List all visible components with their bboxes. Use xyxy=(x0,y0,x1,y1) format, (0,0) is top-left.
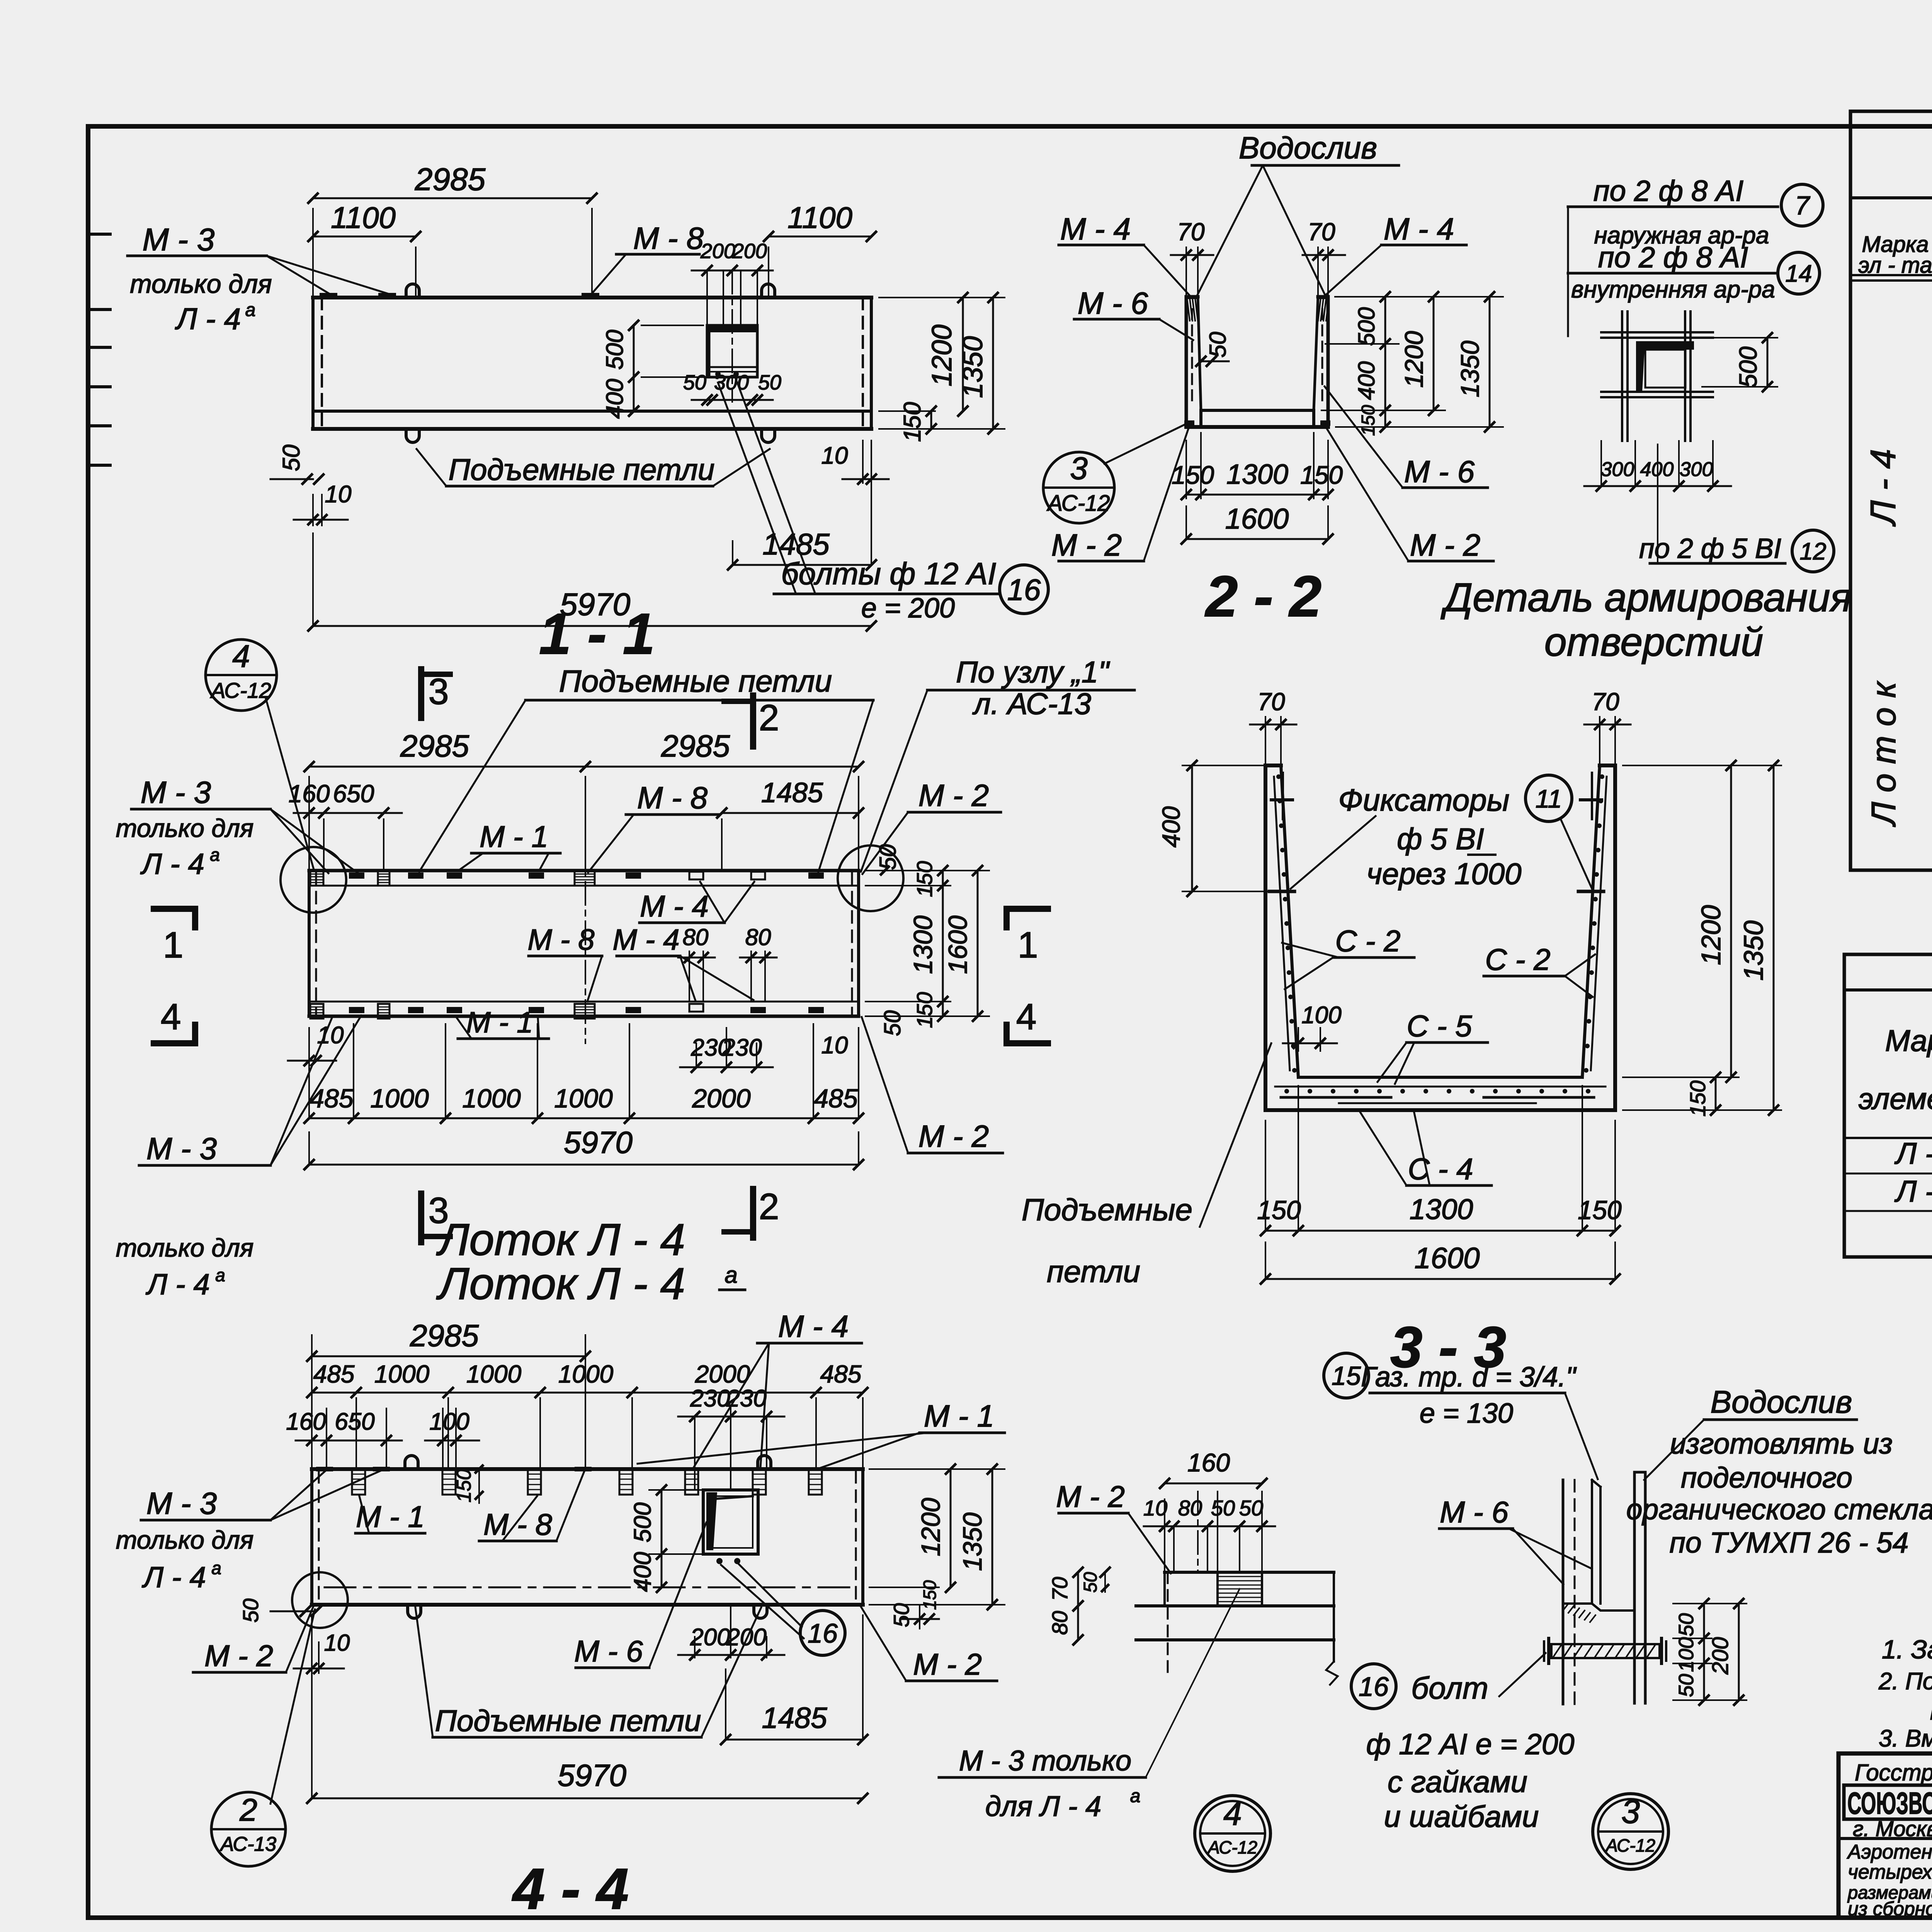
svg-text:1200: 1200 xyxy=(927,325,957,386)
svg-text:1 - 1: 1 - 1 xyxy=(539,601,655,666)
svg-text:16: 16 xyxy=(1359,1672,1389,1702)
svg-text:По узлу „1": По узлу „1" xyxy=(956,655,1110,689)
svg-text:С - 5: С - 5 xyxy=(1406,1009,1472,1043)
plan view: section marks 3 and 2 bottom xyxy=(418,1194,424,1242)
svg-text:М - 6: М - 6 xyxy=(1404,454,1475,489)
section 4-4: right dims 1200 1350 xyxy=(869,1468,1005,1470)
svg-text:для Л - 4: для Л - 4 xyxy=(985,1790,1101,1822)
svg-text:С - 2: С - 2 xyxy=(1485,942,1550,976)
svg-text:2 - 2: 2 - 2 xyxy=(1204,564,1321,629)
svg-text:1000: 1000 xyxy=(370,1084,429,1113)
svg-text:М - 3: М - 3 xyxy=(143,222,215,257)
svg-text:50: 50 xyxy=(1080,1572,1101,1593)
svg-text:С - 4: С - 4 xyxy=(1408,1152,1473,1186)
svg-text:485: 485 xyxy=(814,1084,858,1113)
svg-text:по 2 ф 5 ВІ: по 2 ф 5 ВІ xyxy=(1639,533,1781,564)
svg-text:четырехкоридорные с: четырехкоридорные с xyxy=(1848,1861,1932,1883)
svg-text:а: а xyxy=(215,1265,225,1285)
svg-text:М - 3: М - 3 xyxy=(146,1131,217,1166)
svg-text:Подъемные: Подъемные xyxy=(1022,1192,1192,1227)
svg-text:органического стекла: органического стекла xyxy=(1626,1493,1932,1526)
svg-text:2. Подъем лотка за верхние пе: 2. Подъем лотка за верхние петли осущест… xyxy=(1878,1668,1932,1695)
table: Выборка стали на 1 элемент - outer box xyxy=(1844,954,1932,1257)
svg-text:М - 1: М - 1 xyxy=(356,1500,425,1534)
svg-text:М - 4: М - 4 xyxy=(1060,212,1131,246)
detail M-2: hatched plate xyxy=(1218,1572,1262,1606)
svg-text:М - 1: М - 1 xyxy=(480,820,548,854)
svg-text:болт: болт xyxy=(1411,1671,1488,1705)
svg-text:4: 4 xyxy=(1223,1795,1242,1832)
svg-text:г. Москва: г. Москва xyxy=(1853,1816,1932,1841)
svg-text:Лоток Л - 4: Лоток Л - 4 xyxy=(436,1259,685,1309)
svg-text:1000: 1000 xyxy=(462,1084,520,1113)
svg-text:4: 4 xyxy=(1016,997,1037,1037)
svg-text:1: 1 xyxy=(163,925,184,966)
section 1-1: dim 10 right xyxy=(862,440,864,483)
svg-text:М - 8: М - 8 xyxy=(483,1507,552,1541)
section 4-4: right dims 150 50 xyxy=(919,1605,920,1629)
section 3-3: wall top rebar hooks xyxy=(1271,798,1293,801)
svg-text:Газ. тр. d = 3/4.": Газ. тр. d = 3/4." xyxy=(1361,1362,1577,1393)
svg-text:1600: 1600 xyxy=(1414,1242,1480,1275)
section 3-3: wall rebar with dots xyxy=(1274,777,1290,1070)
svg-text:1200: 1200 xyxy=(1696,905,1726,965)
svg-text:80: 80 xyxy=(1048,1611,1072,1635)
svg-text:2000: 2000 xyxy=(695,1360,750,1388)
svg-text:только для: только для xyxy=(130,269,272,299)
svg-text:АС-12: АС-12 xyxy=(1046,491,1110,516)
svg-text:400: 400 xyxy=(1157,806,1185,847)
svg-text:только для: только для xyxy=(116,814,254,842)
section 4-4: callout circle 2 АС-13 xyxy=(211,1792,286,1866)
section 1-1: embedded plates M-3 M-8 xyxy=(320,293,337,298)
svg-text:50: 50 xyxy=(879,1010,905,1036)
svg-text:АС-13: АС-13 xyxy=(219,1833,277,1855)
svg-text:М - 2: М - 2 xyxy=(1051,528,1122,562)
svg-text:Л - 4: Л - 4 xyxy=(175,302,241,336)
svg-text:а: а xyxy=(245,300,256,320)
svg-text:50: 50 xyxy=(758,371,781,394)
svg-text:ф 5 ВІ: ф 5 ВІ xyxy=(1397,822,1484,856)
svg-text:М - 4: М - 4 xyxy=(640,889,709,923)
title block logo СОЮЗВОДОКАНАЛПРОЕКТ xyxy=(1844,1785,1932,1819)
svg-text:4 - 4: 4 - 4 xyxy=(512,1856,629,1921)
svg-text:100: 100 xyxy=(429,1408,469,1435)
svg-text:ф 12 АІ e = 200: ф 12 АІ e = 200 xyxy=(1366,1728,1575,1761)
svg-text:500: 500 xyxy=(629,1502,656,1542)
svg-text:2: 2 xyxy=(239,1793,257,1828)
svg-text:1600: 1600 xyxy=(1225,503,1289,535)
svg-text:150: 150 xyxy=(1172,461,1214,489)
svg-text:М - 6: М - 6 xyxy=(574,1634,643,1668)
section 4-4: dims 500 400 xyxy=(649,1489,701,1491)
section 1-1: dim 1100 right xyxy=(768,247,769,298)
svg-text:М - 1: М - 1 xyxy=(466,1006,533,1039)
svg-text:650: 650 xyxy=(333,780,374,808)
section 4-4: lifting loops xyxy=(405,1456,418,1469)
svg-text:2985: 2985 xyxy=(661,729,730,763)
svg-text:М - 6: М - 6 xyxy=(1440,1495,1509,1529)
svg-text:М - 2: М - 2 xyxy=(918,1119,989,1153)
section 1-1: dims 50 300 50 under hole xyxy=(692,399,773,401)
plan view: bottom row embedded plates xyxy=(349,1007,364,1013)
section 2-2: dim 50 inner xyxy=(1201,361,1229,362)
svg-text:1: 1 xyxy=(1018,925,1038,966)
detail M-2: dims 10 80 50 50 xyxy=(1173,1528,1175,1572)
svg-text:М - 2: М - 2 xyxy=(1410,528,1480,562)
svg-text:1600: 1600 xyxy=(943,915,973,974)
title block outer box xyxy=(1838,1753,1932,1918)
svg-text:50: 50 xyxy=(1211,1496,1235,1520)
svg-text:10: 10 xyxy=(325,481,352,508)
svg-text:2000: 2000 xyxy=(692,1084,750,1113)
svg-text:11: 11 xyxy=(1536,784,1562,813)
plan view: dim 5970 xyxy=(308,1132,310,1165)
section 3-3: dim 400 left xyxy=(1182,765,1264,766)
svg-text:3: 3 xyxy=(1621,1793,1640,1830)
svg-text:АС-12: АС-12 xyxy=(1605,1835,1655,1855)
hole reinforcement detail: dim 500 xyxy=(1702,337,1777,338)
svg-text:отверстий: отверстий xyxy=(1544,620,1763,665)
title block left cell xyxy=(1838,1837,1932,1840)
svg-text:10: 10 xyxy=(821,1032,848,1059)
detail M-2: leader to M-3 label xyxy=(1146,1589,1240,1777)
svg-text:1300: 1300 xyxy=(1410,1193,1473,1225)
svg-text:650: 650 xyxy=(335,1408,374,1435)
svg-text:10: 10 xyxy=(324,1630,350,1656)
section 2-2: bottom dims 150 1300 150 1600 xyxy=(1185,440,1187,498)
plan view: trough body outline xyxy=(309,869,859,872)
plan view: section marks 3 and 2 top xyxy=(418,669,424,718)
plan view: dims 230 230 xyxy=(696,1043,697,1067)
plan view: top row embedded plates xyxy=(349,872,364,879)
section 3-3: channel cross-section outline xyxy=(1265,765,1615,1110)
svg-text:по 2 ф 8 АІ: по 2 ф 8 АІ xyxy=(1594,175,1743,207)
svg-text:80: 80 xyxy=(683,924,709,950)
svg-text:поделочного: поделочного xyxy=(1681,1461,1852,1494)
svg-text:400: 400 xyxy=(602,379,628,418)
svg-text:1350: 1350 xyxy=(957,336,988,398)
svg-text:Госстрой: Госстрой xyxy=(1855,1760,1932,1786)
svg-text:50: 50 xyxy=(1675,1674,1698,1697)
svg-text:2: 2 xyxy=(759,697,779,738)
svg-text:70: 70 xyxy=(1048,1577,1072,1601)
svg-text:М - 6: М - 6 xyxy=(1078,286,1148,320)
section 3-3: dim 100 xyxy=(1298,1028,1299,1051)
svg-text:М - 2: М - 2 xyxy=(913,1647,982,1681)
svg-text:2985: 2985 xyxy=(410,1318,479,1353)
svg-text:2985: 2985 xyxy=(400,729,469,763)
svg-text:по ТУМХП 26 - 54: по ТУМХП 26 - 54 xyxy=(1670,1526,1909,1559)
svg-text:Л - 4: Л - 4 xyxy=(140,848,204,881)
section 2-2: dims 70 top xyxy=(1185,247,1187,297)
detail M-2: dim 160 xyxy=(1164,1499,1165,1572)
svg-text:200: 200 xyxy=(1708,1637,1733,1675)
svg-text:М - 8: М - 8 xyxy=(527,923,594,956)
svg-text:л. АС-13: л. АС-13 xyxy=(972,687,1091,721)
svg-text:4: 4 xyxy=(232,639,250,674)
svg-text:200: 200 xyxy=(700,240,735,263)
svg-text:а: а xyxy=(210,845,220,865)
svg-text:1000: 1000 xyxy=(374,1360,430,1388)
section 4-4: callout 16 bolts xyxy=(800,1611,845,1655)
svg-text:Водослив: Водослив xyxy=(1239,131,1377,165)
section 3-3: bottom dims 150 1300 150 1600 xyxy=(1265,1121,1266,1231)
section 1-1: dims 500 400 left of hole xyxy=(633,325,635,411)
svg-text:траверсой, не допуская передач: траверсой, не допуская передачи распора … xyxy=(1930,1698,1932,1725)
svg-text:из сборного железобетона: из сборного железобетона xyxy=(1848,1898,1932,1920)
hole reinforcement detail: bar grid xyxy=(1621,311,1623,441)
callout circle 4 АС-12 bottom xyxy=(1195,1796,1270,1871)
svg-text:150: 150 xyxy=(1300,461,1343,489)
section 4-4: dims 200 200 xyxy=(694,1637,696,1658)
svg-text:по 2 ф 8 АІ: по 2 ф 8 АІ xyxy=(1598,241,1748,274)
section 3-3: fixator marks xyxy=(1269,890,1294,893)
section 4-4: flat plates xyxy=(316,1467,333,1471)
plan view: dim 2985 2985 xyxy=(308,777,310,871)
svg-text:230: 230 xyxy=(721,1034,762,1061)
svg-text:АС-12: АС-12 xyxy=(210,678,271,702)
section 4-4: drain hole xyxy=(703,1490,758,1554)
plan view: bottom dim 10 xyxy=(288,1060,336,1062)
svg-text:М - 2: М - 2 xyxy=(918,778,989,813)
svg-text:500: 500 xyxy=(1354,307,1379,346)
svg-text:300: 300 xyxy=(1680,458,1713,481)
svg-text:150: 150 xyxy=(920,1580,940,1610)
svg-text:1300: 1300 xyxy=(1226,459,1288,490)
section 1-1: right side dims 150 1200 1350 xyxy=(879,410,935,412)
detail водослив: callout 16 болт xyxy=(1351,1664,1396,1709)
svg-text:10: 10 xyxy=(1143,1496,1167,1520)
svg-text:5970: 5970 xyxy=(558,1758,626,1793)
svg-text:Л о т о к: Л о т о к xyxy=(1864,680,1903,827)
svg-text:а: а xyxy=(211,1558,221,1578)
svg-text:70: 70 xyxy=(1592,688,1619,716)
section 1-1: dim 5970 xyxy=(312,533,314,626)
svg-text:50: 50 xyxy=(238,1599,263,1622)
svg-text:Деталь армирования: Деталь армирования xyxy=(1440,575,1852,620)
svg-text:400: 400 xyxy=(629,1552,656,1592)
section 4-4: trough side view body xyxy=(312,1467,863,1471)
svg-text:1200: 1200 xyxy=(1400,331,1428,388)
svg-text:Подъемные петли: Подъемные петли xyxy=(449,452,715,486)
plan view: corner detail circles xyxy=(281,847,346,913)
hole reinforcement detail: dims 300 400 300 xyxy=(1600,441,1602,486)
svg-text:150: 150 xyxy=(912,992,937,1028)
svg-text:100: 100 xyxy=(1675,1637,1698,1672)
svg-text:160: 160 xyxy=(286,1408,326,1435)
svg-text:М - 3: М - 3 xyxy=(141,775,211,810)
svg-text:50: 50 xyxy=(1239,1496,1263,1520)
frame registration ticks left margin xyxy=(91,233,110,236)
svg-text:150: 150 xyxy=(899,402,926,442)
svg-text:а: а xyxy=(1130,1786,1141,1806)
svg-text:2: 2 xyxy=(759,1186,779,1227)
plan view: callout circle 4 АС-12 xyxy=(206,639,277,711)
svg-text:С - 2: С - 2 xyxy=(1335,924,1400,958)
svg-text:1000: 1000 xyxy=(558,1360,614,1388)
section 4-4: top spacing dims xyxy=(355,1398,357,1469)
svg-text:1100: 1100 xyxy=(331,201,396,235)
svg-text:изготовлять из: изготовлять из xyxy=(1670,1427,1893,1460)
svg-text:70: 70 xyxy=(1177,218,1205,246)
plan view: right section marks 1 and 4 xyxy=(1007,909,1048,927)
svg-text:только для: только для xyxy=(116,1233,254,1262)
svg-text:3: 3 xyxy=(1070,451,1088,486)
svg-text:500: 500 xyxy=(602,330,628,369)
section 2-2: channel cross-section outline xyxy=(1186,297,1201,427)
section 1-1: lifting loops xyxy=(406,284,419,298)
svg-text:200: 200 xyxy=(732,240,767,263)
section 1-1: dim 2985 xyxy=(312,209,314,298)
svg-text:1350: 1350 xyxy=(1738,920,1769,981)
svg-text:1200: 1200 xyxy=(916,1498,946,1556)
plan view: left section marks 1 and 4 xyxy=(154,909,195,927)
table: Выборка арматурных и закладных изделий - outer box xyxy=(1850,111,1932,870)
svg-text:230: 230 xyxy=(726,1385,766,1412)
svg-text:500: 500 xyxy=(1734,346,1762,388)
svg-text:485: 485 xyxy=(820,1360,862,1388)
detail M-2: section lines xyxy=(1165,1571,1334,1574)
svg-text:16: 16 xyxy=(808,1618,838,1648)
svg-text:160: 160 xyxy=(1187,1448,1230,1477)
detail водослив: bolt with nuts xyxy=(1551,1644,1660,1658)
detail водослив: callout 15 газ труба xyxy=(1324,1353,1369,1398)
svg-text:50: 50 xyxy=(1205,332,1231,358)
svg-text:10: 10 xyxy=(821,442,848,469)
section 2-2: callout circle 3 АС-12 xyxy=(1043,452,1114,523)
svg-text:150: 150 xyxy=(1685,1080,1710,1116)
svg-text:70: 70 xyxy=(1308,218,1335,246)
svg-text:внутренняя ар-ра: внутренняя ар-ра xyxy=(1571,276,1775,303)
section 1-1: dim 200 200 over hole xyxy=(692,270,773,272)
svg-text:1485: 1485 xyxy=(761,777,823,808)
section 2-2: wall embedded details xyxy=(1191,309,1193,406)
detail M-2: left dims 1350 70 50 80 xyxy=(1077,1572,1079,1606)
svg-text:М - 2: М - 2 xyxy=(204,1639,273,1673)
svg-text:Л - 4: Л - 4 xyxy=(1894,1136,1932,1170)
svg-text:12: 12 xyxy=(1800,538,1827,565)
svg-text:М - 4: М - 4 xyxy=(1384,212,1454,246)
svg-text:1. Защитный слой бетона: 1. Защитный слой бетона - 20 мм . xyxy=(1882,1635,1932,1664)
svg-text:болты ф 12 АІ: болты ф 12 АІ xyxy=(781,556,996,591)
svg-text:1485: 1485 xyxy=(762,1702,827,1735)
detail водослив: vertical channel walls xyxy=(1562,1480,1565,1704)
svg-text:1350: 1350 xyxy=(958,1512,987,1571)
section 4-4: dim 2985 xyxy=(311,1335,313,1469)
svg-text:3: 3 xyxy=(429,671,449,712)
svg-text:80: 80 xyxy=(1178,1496,1202,1520)
svg-text:150: 150 xyxy=(1358,405,1379,436)
svg-text:1350: 1350 xyxy=(1456,340,1484,397)
svg-text:80: 80 xyxy=(745,924,771,950)
svg-text:485: 485 xyxy=(313,1360,355,1388)
svg-text:через 1000: через 1000 xyxy=(1366,857,1521,891)
svg-text:Л - 4: Л - 4 xyxy=(141,1561,206,1594)
svg-text:1000: 1000 xyxy=(554,1084,612,1113)
section 3-3: dims 70 top xyxy=(1265,717,1266,765)
svg-text:Водослив: Водослив xyxy=(1711,1384,1852,1420)
svg-text:50: 50 xyxy=(278,445,305,471)
section 1-1: dims 50 10 left xyxy=(270,478,313,480)
svg-text:Марка: Марка xyxy=(1885,1024,1932,1058)
plan view: bottom spacing dims 485 1000x3 2000 485 xyxy=(308,1028,310,1118)
svg-text:СОЮЗВОДОКАНАЛПРОЕКТ: СОЮЗВОДОКАНАЛПРОЕКТ xyxy=(1847,1786,1932,1820)
svg-text:1100: 1100 xyxy=(787,201,852,235)
svg-text:3. Вместах отверстий арматуру: 3. Вместах отверстий арматуру сеток обре… xyxy=(1879,1725,1932,1752)
svg-text:М - 4: М - 4 xyxy=(612,923,679,956)
svg-text:7: 7 xyxy=(1795,191,1810,220)
svg-text:1000: 1000 xyxy=(466,1360,522,1388)
svg-text:М - 3 только: М - 3 только xyxy=(959,1745,1131,1777)
svg-text:М - 8: М - 8 xyxy=(633,221,704,255)
svg-text:элемента: элемента xyxy=(1859,1082,1932,1116)
section 1-1: dim 1100 left xyxy=(415,247,417,298)
section 4-4: detail circle left end xyxy=(292,1572,348,1628)
callout circle 3 АС-12 bottom xyxy=(1593,1794,1668,1869)
svg-text:100: 100 xyxy=(1301,1002,1341,1029)
svg-text:150: 150 xyxy=(912,861,937,897)
svg-text:5970: 5970 xyxy=(564,1125,633,1160)
svg-text:Подъемные петли: Подъемные петли xyxy=(559,664,832,698)
svg-text:50: 50 xyxy=(889,1603,913,1627)
svg-text:Лоток Л - 4: Лоток Л - 4 xyxy=(436,1214,685,1265)
plan view: dim 1485 top xyxy=(721,819,723,871)
svg-text:Л - 4: Л - 4 xyxy=(145,1268,210,1301)
section 4-4: dim 5970 xyxy=(311,1615,313,1798)
svg-text:Аэротенки - смесители: Аэротенки - смесители xyxy=(1847,1841,1932,1863)
svg-text:Л - 4: Л - 4 xyxy=(1894,1174,1932,1208)
svg-text:16: 16 xyxy=(1007,573,1041,607)
section 4-4: dim 1485 xyxy=(725,1669,726,1740)
section 1-1: drain hole with bolts xyxy=(707,325,757,377)
plan view: dims 160 650 xyxy=(323,819,325,871)
svg-text:150: 150 xyxy=(1578,1196,1622,1225)
svg-text:Фиксаторы: Фиксаторы xyxy=(1338,783,1509,817)
section 4-4: dims 160 650 100 150 xyxy=(326,1408,327,1469)
section 1-1: dim 1485 xyxy=(732,541,733,565)
svg-text:1300: 1300 xyxy=(908,915,938,974)
svg-text:М - 2: М - 2 xyxy=(1056,1480,1125,1514)
svg-text:эл - та: эл - та xyxy=(1858,253,1932,278)
svg-text:2985: 2985 xyxy=(415,162,486,197)
svg-text:М - 8: М - 8 xyxy=(637,781,708,815)
svg-text:АС-12: АС-12 xyxy=(1207,1837,1257,1857)
svg-text:М - 4: М - 4 xyxy=(778,1309,849,1344)
svg-text:300: 300 xyxy=(714,371,749,394)
detail водослив: dims 50 100 50 200 xyxy=(1673,1638,1712,1639)
section 4-4: left dims 50 10 xyxy=(270,1611,313,1612)
svg-text:e = 130: e = 130 xyxy=(1420,1398,1513,1429)
svg-text:400: 400 xyxy=(1354,361,1379,400)
svg-text:Л - 4: Л - 4 xyxy=(1864,449,1903,527)
section 4-4: dims 230 230 xyxy=(694,1417,696,1490)
svg-text:200: 200 xyxy=(690,1624,730,1651)
svg-text:Подъемные петли: Подъемные петли xyxy=(435,1704,701,1738)
svg-text:70: 70 xyxy=(1257,688,1285,716)
svg-text:50: 50 xyxy=(683,371,706,394)
section 4-4: anchors M-1 hatched xyxy=(352,1469,365,1495)
section 3-3: right dims 1200 1350 150 xyxy=(1623,765,1781,766)
svg-text:e = 200: e = 200 xyxy=(861,593,955,624)
svg-text:только для: только для xyxy=(116,1526,254,1554)
svg-text:М - 1: М - 1 xyxy=(924,1399,994,1433)
svg-text:а: а xyxy=(724,1262,737,1288)
svg-text:петли: петли xyxy=(1047,1254,1140,1289)
section 3-3: floor rebar xyxy=(1275,1086,1605,1088)
svg-text:М - 3: М - 3 xyxy=(146,1486,217,1520)
svg-text:150: 150 xyxy=(453,1469,475,1503)
